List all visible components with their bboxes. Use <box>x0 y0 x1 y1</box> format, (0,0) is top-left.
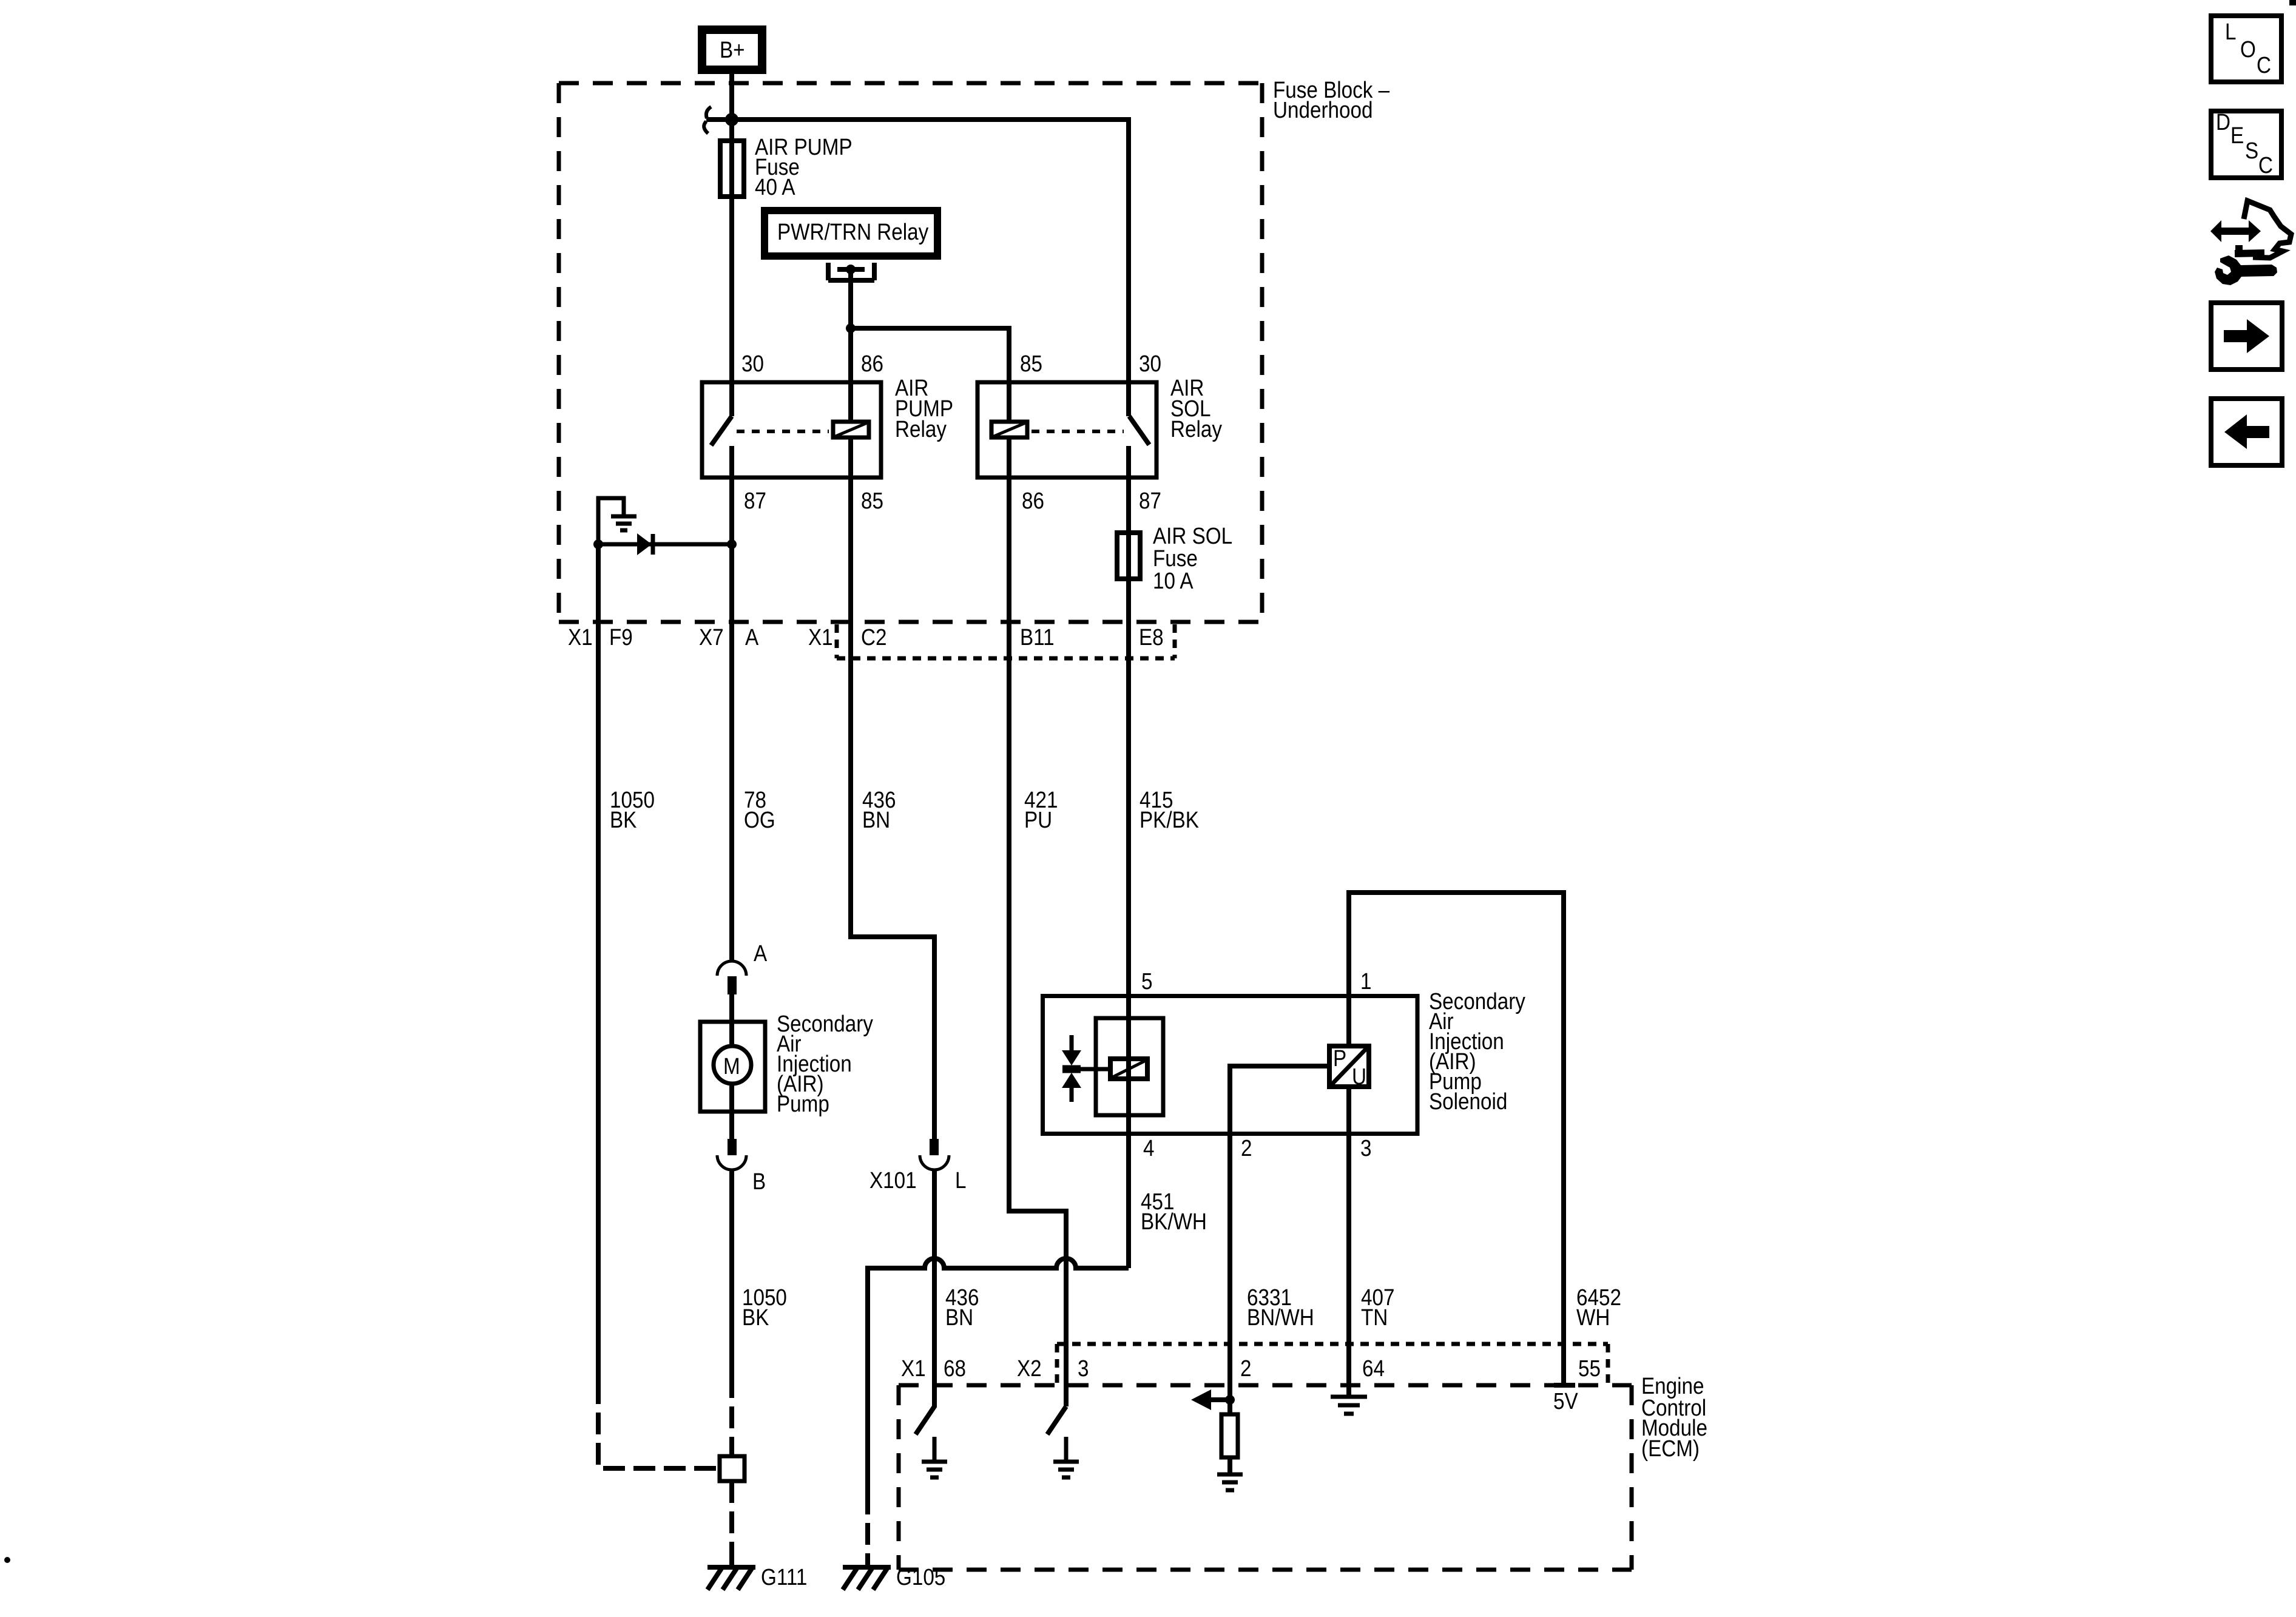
svg-text:B11: B11 <box>1020 624 1055 650</box>
svg-text:PU: PU <box>1024 807 1052 833</box>
wire bus from junction to AIR SOL relay pin 30 <box>706 120 1129 416</box>
svg-text:68: 68 <box>944 1355 966 1382</box>
svg-text:Solenoid: Solenoid <box>1429 1089 1507 1115</box>
svg-text:Underhood: Underhood <box>1273 97 1373 123</box>
svg-text:B: B <box>752 1169 766 1195</box>
svg-text:BN: BN <box>862 807 890 833</box>
svg-text:S: S <box>2245 138 2258 164</box>
svg-text:A: A <box>754 940 767 967</box>
ECM ground pin 64 <box>1331 1385 1367 1414</box>
wire B+ to junction <box>729 74 734 120</box>
node junction diode anode <box>593 539 603 549</box>
ECM driver switch pin 68 <box>916 1385 947 1477</box>
icon service info leg <box>2235 245 2264 255</box>
wire junction down to AIR PUMP relay coil pin 86 <box>848 328 853 420</box>
fuse AIR PUMP 40 A <box>720 134 853 200</box>
ECM connector row labels <box>901 1355 1601 1382</box>
svg-text:5: 5 <box>1141 968 1152 994</box>
icon wrench <box>2215 255 2277 285</box>
battery feed terminal B+ <box>702 30 762 70</box>
svg-text:87: 87 <box>1139 488 1161 514</box>
diode (to AIR PUMP relay pin 87) <box>598 533 732 555</box>
svg-text:X7: X7 <box>699 624 724 650</box>
svg-text:OG: OG <box>744 807 775 833</box>
actuation dashed link <box>737 430 829 433</box>
svg-text:BN: BN <box>945 1305 973 1331</box>
node splice junction at B+ feed <box>725 113 738 126</box>
wire continuation curl symbol <box>704 107 711 133</box>
svg-text:X1: X1 <box>568 624 593 650</box>
switch blade pin 30 to 87 <box>1129 416 1149 445</box>
connector X101 pin L <box>869 1139 966 1193</box>
wire 451 BK/WH solenoid pin 4 to G105 with crossover hops <box>868 1189 1207 1493</box>
svg-text:G111: G111 <box>761 1564 807 1590</box>
svg-text:64: 64 <box>1362 1355 1385 1382</box>
svg-text:86: 86 <box>1022 488 1044 514</box>
ground G105 <box>843 1553 945 1590</box>
pressure transducer PU <box>1329 1045 1369 1090</box>
connector X1 dashed outline <box>837 624 1175 658</box>
svg-text:10 A: 10 A <box>1153 568 1194 594</box>
wire 421 PU from B11 jog to ECM X2-3 <box>1009 439 1066 1406</box>
svg-text:E: E <box>2230 123 2244 149</box>
fuse block underhood dashed boundary <box>559 77 1389 622</box>
node junction at pin 87 wire <box>727 539 737 549</box>
ground symbol above diode <box>598 498 636 544</box>
svg-text:U: U <box>1352 1064 1366 1090</box>
splice box <box>720 1456 745 1481</box>
icon LOC <box>2211 16 2281 82</box>
svg-text:PK/BK: PK/BK <box>1140 807 1199 833</box>
svg-text:TN: TN <box>1361 1305 1388 1331</box>
svg-text:G105: G105 <box>896 1564 945 1590</box>
svg-text:2: 2 <box>1241 1135 1252 1161</box>
svg-text:L: L <box>2225 19 2236 45</box>
svg-text:2: 2 <box>1240 1355 1251 1382</box>
ECM pull-up resistor pin 2 <box>1217 1400 1243 1490</box>
svg-text:BN/WH: BN/WH <box>1247 1305 1314 1331</box>
icon service info double arrow <box>2210 220 2261 242</box>
solenoid Secondary Air Injection (AIR) Pump Solenoid <box>1043 988 1526 1134</box>
wire PWR/TRN output down <box>848 269 853 328</box>
svg-text:Relay: Relay <box>1170 416 1222 442</box>
icon service info outline <box>2244 201 2291 258</box>
svg-text:40 A: 40 A <box>755 174 795 200</box>
node junction PWR/TRN feed <box>846 323 856 333</box>
svg-text:B+: B+ <box>720 37 745 63</box>
ECM signal arrow pin 2 <box>1191 1389 1235 1410</box>
wire 78 OG pin 87 to AIR pump connector A <box>729 446 734 960</box>
icon arrow next <box>2211 303 2282 370</box>
svg-text:X2: X2 <box>1017 1355 1042 1382</box>
svg-text:A: A <box>745 624 758 650</box>
svg-text:L: L <box>955 1167 966 1193</box>
relay coil <box>833 422 869 437</box>
suppression dual diode <box>1062 1035 1108 1102</box>
svg-text:BK: BK <box>742 1305 769 1331</box>
svg-text:PWR/TRN Relay: PWR/TRN Relay <box>777 219 928 245</box>
svg-text:D: D <box>2216 109 2230 135</box>
svg-text:X1: X1 <box>901 1355 926 1382</box>
svg-text:F9: F9 <box>609 624 633 650</box>
icon DESC <box>2211 109 2281 178</box>
svg-text:P: P <box>1333 1045 1346 1072</box>
ECM 5V reference pin 55 <box>1553 1385 1578 1414</box>
svg-text:(ECM): (ECM) <box>1641 1436 1700 1462</box>
wire dashed pump ground path <box>729 1376 734 1557</box>
svg-text:C2: C2 <box>861 624 886 650</box>
PWR/TRN relay output bracket symbol <box>828 263 874 280</box>
svg-text:30: 30 <box>741 351 764 377</box>
switch blade pin 30 to 87 <box>711 416 732 445</box>
svg-text:85: 85 <box>1020 351 1042 377</box>
wire 6331 BN/WH solenoid pin 2 to ECM pin 2 <box>1230 1066 1327 1400</box>
fuse AIR SOL 10 A <box>1117 523 1232 594</box>
actuation dashed link <box>1032 430 1124 433</box>
svg-text:X101: X101 <box>869 1167 917 1193</box>
wire dashed 1050 BK unspecified path to splice box <box>598 1382 717 1468</box>
wire dashed 451 BK/WH to G105 <box>865 1493 870 1557</box>
wire junction to AIR SOL relay coil pin 85 <box>851 328 1009 420</box>
relay coil <box>991 422 1027 437</box>
svg-text:85: 85 <box>861 488 883 514</box>
svg-text:Relay: Relay <box>895 416 947 442</box>
svg-text:X1: X1 <box>808 624 833 650</box>
svg-text:87: 87 <box>744 488 766 514</box>
wire 407 TN solenoid pin 3 to ECM pin 64 <box>1346 1087 1351 1397</box>
svg-text:1: 1 <box>1360 968 1371 994</box>
relay PWR/TRN Relay label box <box>765 211 937 256</box>
connector A <box>717 940 767 994</box>
Engine Control Module dashed boundary <box>899 1373 1707 1570</box>
svg-text:BK/WH: BK/WH <box>1141 1209 1207 1235</box>
svg-text:E8: E8 <box>1139 624 1164 650</box>
ECM driver switch pin 3 <box>1047 1406 1079 1477</box>
svg-text:86: 86 <box>861 351 883 377</box>
svg-text:WH: WH <box>1576 1305 1610 1331</box>
svg-text:C: C <box>2257 52 2271 78</box>
motor Secondary Air Injection (AIR) Pump <box>700 994 873 1139</box>
ECM connector X2 dashed outline <box>1057 1344 1608 1385</box>
page mark top-right <box>2289 0 2296 5</box>
connector B <box>717 1139 766 1195</box>
wire solenoid coil pin 5 to pin 4 <box>1126 1056 1131 1268</box>
svg-text:Pump: Pump <box>777 1091 829 1117</box>
svg-text:3: 3 <box>1078 1355 1089 1382</box>
relay AIR SOL Relay <box>977 351 1222 514</box>
wire 6452 WH solenoid pin 1 to ECM pin 55 <box>1349 893 1564 1385</box>
relay AIR PUMP Relay <box>702 351 953 514</box>
svg-text:5V: 5V <box>1553 1388 1578 1414</box>
svg-text:30: 30 <box>1139 351 1161 377</box>
wire 436 BN from C2 jog to X101 <box>851 439 934 1139</box>
solenoid pin labels <box>1141 968 1371 1161</box>
wire 1050 BK from pump connector B to G111 <box>729 1170 734 1376</box>
svg-text:C: C <box>2258 152 2273 178</box>
wire main feed down from junction <box>729 120 734 416</box>
svg-text:BK: BK <box>610 807 637 833</box>
connector row labels fuse block <box>568 624 1164 650</box>
svg-text:3: 3 <box>1360 1135 1371 1161</box>
solenoid coil assembly sub-box <box>1096 1018 1163 1115</box>
wire 436 BN from X101 to ECM pin 68 <box>932 1170 937 1406</box>
ground G111 <box>707 1553 807 1590</box>
wire 415 PK/BK from E8 to solenoid pin 5 <box>1126 446 1131 1056</box>
svg-text:M: M <box>723 1053 740 1079</box>
svg-text:55: 55 <box>1578 1355 1601 1382</box>
wire 1050 BK from F9 <box>596 544 601 1382</box>
page mark bottom-left <box>4 1557 10 1563</box>
svg-text:O: O <box>2240 36 2256 62</box>
solenoid relay coil <box>1110 1059 1147 1079</box>
icon arrow back <box>2211 399 2282 465</box>
svg-text:4: 4 <box>1143 1135 1154 1161</box>
